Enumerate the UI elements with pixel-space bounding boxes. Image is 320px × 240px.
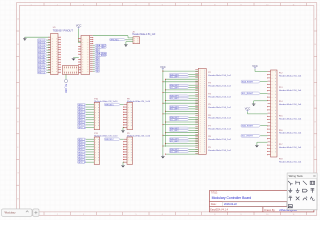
svg-text:Header-Male-2.54_1x4: Header-Male-2.54_1x4 xyxy=(279,146,302,149)
svg-text:Header-Male-2.54_1x4: Header-Male-2.54_1x4 xyxy=(208,149,231,152)
svg-text:GPIO_10: GPIO_10 xyxy=(78,162,86,164)
svg-text:Header-Male-2.54_1x4: Header-Male-2.54_1x4 xyxy=(279,132,302,135)
svg-text:PIN_C2: PIN_C2 xyxy=(38,72,46,74)
svg-text:VCC: VCC xyxy=(252,64,258,68)
svg-text:SCL_LEFT: SCL_LEFT xyxy=(170,141,180,143)
svg-text:SCL_LEFT: SCL_LEFT xyxy=(170,109,180,111)
svg-text:*Modulary: *Modulary xyxy=(4,211,16,215)
svg-text:Header-Male-2.54_1x4: Header-Male-2.54_1x4 xyxy=(208,106,231,109)
svg-text:VCC: VCC xyxy=(76,24,82,28)
svg-text:VCC: VCC xyxy=(245,107,251,111)
svg-text:Header-Male-2.54_1x4: Header-Male-2.54_1x4 xyxy=(279,89,302,92)
svg-text:EasyEDA V4.1.4: EasyEDA V4.1.4 xyxy=(210,209,228,212)
svg-text:Header-Male-2.54_1x4: Header-Male-2.54_1x4 xyxy=(208,95,231,98)
svg-text:WRCN1C: WRCN1C xyxy=(105,104,114,106)
svg-text:GPIO_10: GPIO_10 xyxy=(78,127,86,129)
svg-text:WRCN1C: WRCN1C xyxy=(105,139,114,141)
svg-text:SCL_LEFT: SCL_LEFT xyxy=(170,152,180,154)
svg-text:Modulary Controller Board: Modulary Controller Board xyxy=(212,196,252,200)
svg-text:5V_USB: 5V_USB xyxy=(64,84,66,93)
svg-text:Header-Male-2.54_1x3: Header-Male-2.54_1x3 xyxy=(132,33,156,36)
svg-text:Wiring Tools: Wiring Tools xyxy=(289,174,304,178)
svg-text:Header-Male-2.54_1x4: Header-Male-2.54_1x4 xyxy=(208,117,231,120)
svg-text:VCC: VCC xyxy=(160,65,166,69)
svg-text:Header-Male-2.54_1x4: Header-Male-2.54_1x4 xyxy=(208,74,231,77)
svg-text:SCL_RIGHT: SCL_RIGHT xyxy=(242,136,254,138)
svg-text:SDA_RIGHT: SDA_RIGHT xyxy=(242,80,254,83)
svg-text:Header-Male-2.54_1x4: Header-Male-2.54_1x4 xyxy=(208,127,231,130)
svg-text:Header-Male-2.54_1x4: Header-Male-2.54_1x4 xyxy=(208,138,231,141)
svg-text:D6: D6 xyxy=(96,71,98,73)
svg-text:2018-02-22: 2018-02-22 xyxy=(224,203,237,206)
svg-text:Header-Male-2.54_1x4: Header-Male-2.54_1x4 xyxy=(279,117,302,120)
svg-text:SCL_LEFT: SCL_LEFT xyxy=(170,87,180,89)
svg-text:WRCN1C: WRCN1C xyxy=(110,39,119,41)
svg-text:SCL_LEFT: SCL_LEFT xyxy=(170,77,180,79)
svg-text:SCL_RIGHT: SCL_RIGHT xyxy=(242,93,254,95)
svg-text:Header-Male-2.54_1x4: Header-Male-2.54_1x4 xyxy=(279,160,302,163)
svg-text:Header-Male-2.54_1x4: Header-Male-2.54_1x4 xyxy=(279,103,302,106)
svg-text:Date:: Date: xyxy=(211,203,217,206)
svg-text:SCL_LEFT: SCL_LEFT xyxy=(170,119,180,121)
svg-text:SCL_LEFT: SCL_LEFT xyxy=(170,130,180,132)
svg-text:SDA_RIGHT: SDA_RIGHT xyxy=(242,125,254,128)
svg-text:SCL_LEFT: SCL_LEFT xyxy=(170,98,180,100)
svg-text:Header-Male-2.54_1x4: Header-Male-2.54_1x4 xyxy=(208,85,231,88)
svg-text:Drawn By:: Drawn By: xyxy=(264,209,275,212)
svg-text:TITLE:: TITLE: xyxy=(211,192,218,194)
svg-text:TEENSY PINOUT: TEENSY PINOUT xyxy=(53,29,74,32)
svg-text:Header-Male-2.54_1x4: Header-Male-2.54_1x4 xyxy=(279,75,302,78)
